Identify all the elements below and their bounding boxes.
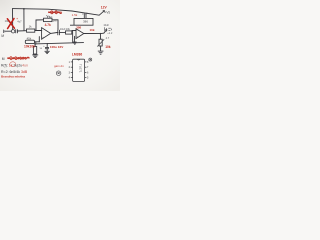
connector symbol below top rail	[46, 15, 52, 18]
resistor R5 to ground	[25, 40, 34, 43]
microphone MIC1	[11, 30, 14, 33]
connector J1 at left edge	[3, 30, 6, 33]
wire R1 to op-amp U1	[35, 30, 42, 32]
box above U2	[70, 18, 93, 25]
red scribble top center	[48, 11, 62, 14]
svg-text:LM386: LM386	[72, 53, 82, 57]
supply arrow +Vs	[99, 11, 104, 16]
svg-text:4.7: 4.7	[106, 36, 110, 40]
svg-text:R(f): 1k 3u|2u4un: R(f): 1k 3u|2u4un	[1, 63, 28, 67]
svg-text:45k: 45k	[27, 36, 32, 40]
node junction dots	[23, 8, 101, 44]
svg-text:M: M	[1, 34, 4, 38]
svg-text:10uF: 10uF	[103, 24, 109, 27]
wire U1 plus input	[35, 37, 40, 42]
capacitor C2	[58, 30, 60, 35]
svg-text:M: M	[2, 57, 5, 61]
U3 left pin labels	[69, 61, 71, 80]
wire resistor R4 leads	[34, 44, 36, 46]
svg-text:1.5k: 1.5k	[72, 13, 78, 17]
red X over mic	[7, 19, 14, 29]
svg-text:10uF: 10uF	[82, 12, 88, 15]
capacitor C3	[45, 48, 49, 49]
wire mic to R1	[6, 30, 11, 32]
faint red speck above C1	[17, 18, 18, 19]
svg-text:10k: 10k	[105, 45, 111, 49]
wire ground bus	[35, 43, 84, 44]
red annotations group	[1, 6, 111, 79]
svg-text:TL071: TL071	[79, 64, 83, 73]
circle symbol near U3 top right	[89, 58, 92, 61]
ground under C3	[45, 51, 50, 53]
op-amp U2	[76, 29, 84, 39]
svg-text:4u7: 4u7	[17, 19, 22, 23]
U3 left pins	[71, 62, 73, 78]
svg-text:Brandiva mkvlna: Brandiva mkvlna	[1, 75, 25, 79]
wire feedback loop U1	[36, 20, 44, 31]
op-amp U1	[42, 28, 51, 40]
resistor R1	[27, 29, 35, 32]
output arrow	[104, 30, 107, 34]
wire left vertical from corner to mic	[12, 9, 14, 30]
U3 right pins	[85, 62, 87, 78]
svg-text:12V: 12V	[101, 6, 108, 10]
ground under U2	[73, 42, 77, 44]
svg-text:+Vs: +Vs	[104, 11, 110, 15]
wire top rail	[13, 9, 100, 16]
svg-text:386: 386	[83, 20, 88, 24]
wire U1 output to cap C2	[51, 32, 58, 35]
wire U2 plus input down	[74, 36, 76, 42]
capacitor C1	[16, 29, 18, 33]
U3 right pin labels	[87, 61, 89, 80]
svg-text:R=2: 6n5/4k 3dB: R=2: 6n5/4k 3dB	[1, 70, 28, 74]
svg-text:10k: 10k	[90, 28, 95, 32]
U3 notch	[77, 58, 80, 61]
small marks speaker row	[105, 27, 112, 31]
ground under pot	[98, 51, 104, 54]
svg-text:10k10k: 10k10k	[24, 44, 35, 48]
wire U2 minus branch down	[72, 31, 74, 43]
svg-text:100u 16V: 100u 16V	[50, 45, 64, 49]
decoupling cap C5	[84, 14, 86, 19]
VR1 wiper arrow	[97, 39, 104, 46]
wire output node down	[99, 34, 101, 40]
svg-text:gain dn: gain dn	[54, 64, 64, 68]
wire R3 to op-amp U2	[72, 30, 76, 32]
svg-text:4.7k: 4.7k	[45, 23, 51, 27]
resistor R2 feedback	[44, 18, 53, 21]
resistor R3	[66, 31, 72, 34]
speaker circle symbol left of U3	[56, 71, 61, 76]
svg-text:1M: 1M	[53, 18, 58, 22]
svg-text:-: -	[42, 29, 43, 32]
potentiometer VR1	[99, 39, 102, 46]
wire U2 output	[84, 32, 104, 34]
ground under R4	[32, 55, 38, 58]
wire cap C3 leads	[46, 44, 48, 48]
resistor R4 vertical	[33, 46, 36, 54]
DIP chip U3 body	[73, 59, 85, 81]
svg-text:+1.2: +1.2	[107, 31, 113, 35]
wire vertical from top rail junction	[23, 9, 25, 30]
paper background	[0, 0, 120, 91]
wire C2 to R3	[60, 31, 66, 33]
svg-text:386: 386	[76, 25, 81, 29]
